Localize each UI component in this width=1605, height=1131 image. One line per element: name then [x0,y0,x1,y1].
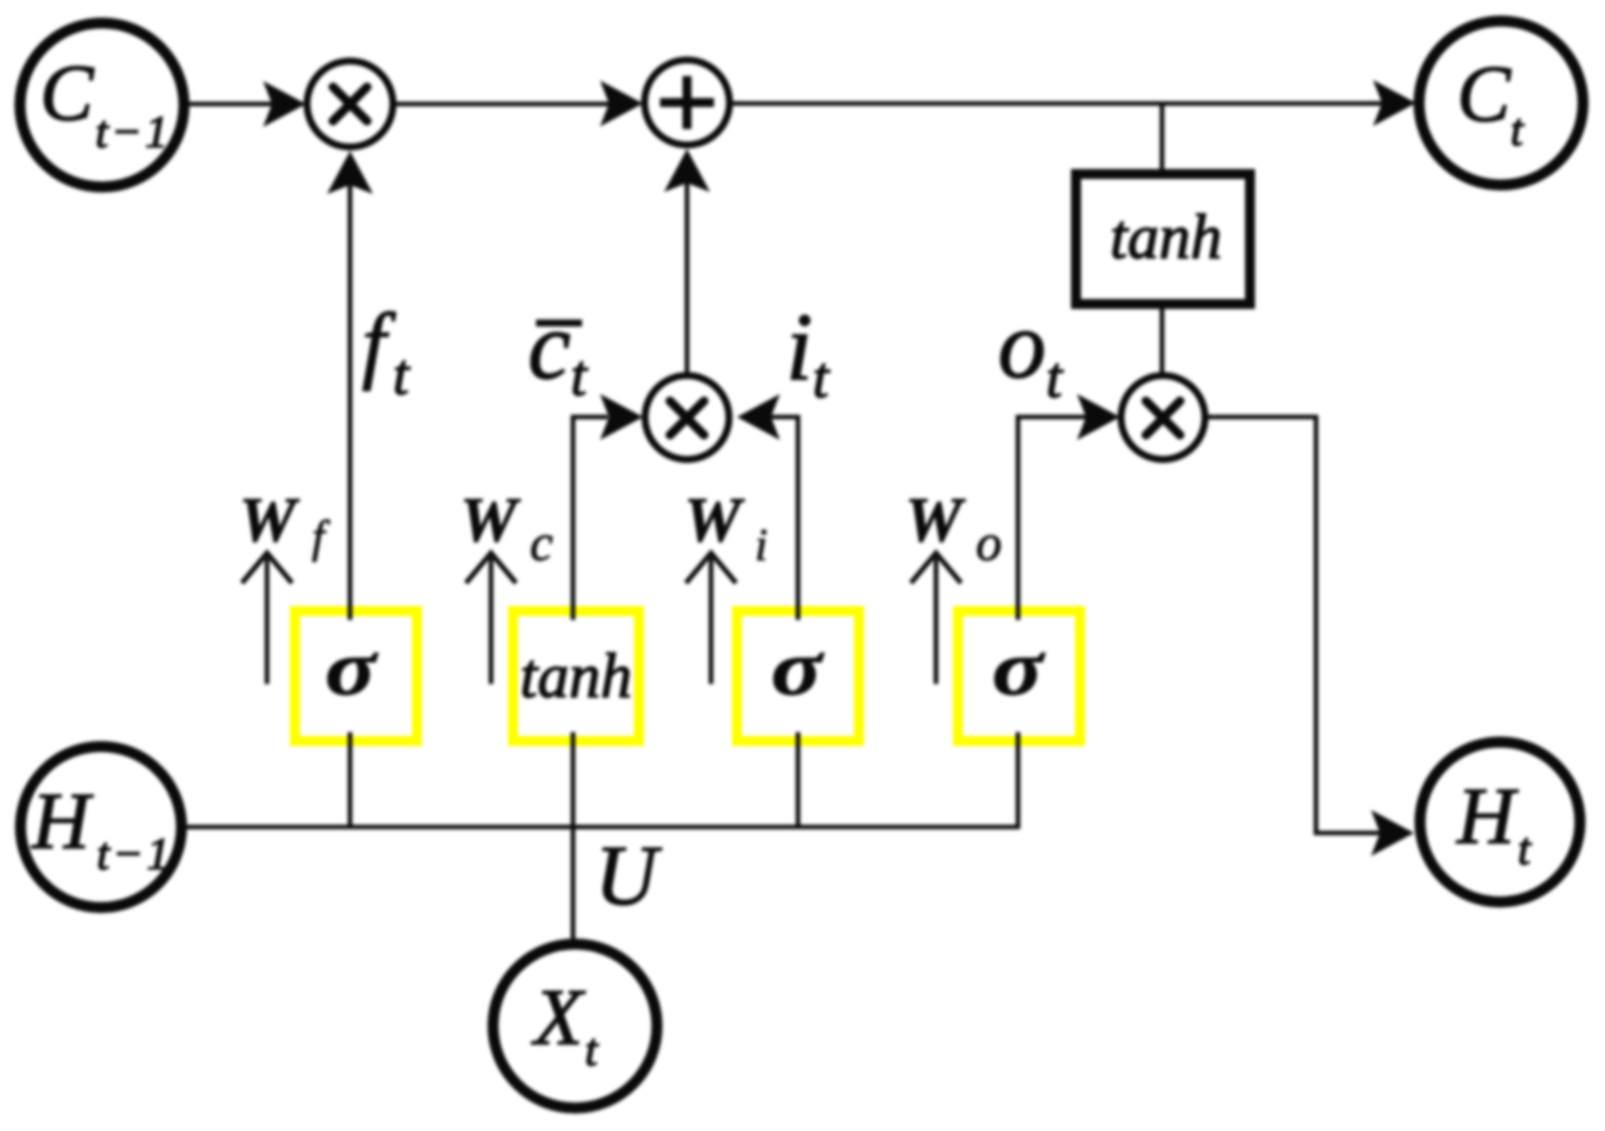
svg-text:σ: σ [325,624,378,711]
svg-text:σ: σ [771,624,824,711]
svg-text:Wi: Wi [684,484,768,570]
svg-text:tanh: tanh [1110,202,1222,272]
svg-text:Wo: Wo [905,484,1002,572]
svg-text:it: it [786,293,831,410]
svg-text:Wf: Wf [239,484,331,562]
svg-text:tanh: tanh [520,641,632,711]
svg-text:ft: ft [362,295,411,407]
svg-text:ot: ot [998,291,1064,410]
svg-text:σ: σ [992,624,1045,711]
svg-text:Wc: Wc [460,484,553,572]
svg-text:U: U [595,827,662,923]
svg-text:ct: ct [528,292,589,408]
